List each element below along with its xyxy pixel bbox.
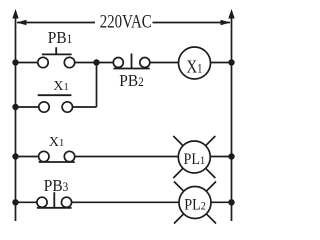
svg-text:PL1: PL1 bbox=[184, 151, 206, 168]
wire rung3 to PL2 bbox=[72, 201, 179, 203]
wire rung2 from left rail bbox=[16, 156, 39, 158]
svg-text:X1: X1 bbox=[53, 79, 68, 94]
svg-text:PB1: PB1 bbox=[48, 28, 73, 47]
node right rail rung1 bbox=[228, 59, 234, 65]
wire branch from left rail bbox=[16, 106, 39, 108]
node left rail rung2 bbox=[12, 153, 18, 159]
220VAC dimension line left segment bbox=[17, 22, 95, 24]
wire PB2 to coil X1 bbox=[150, 62, 179, 64]
pilot light PL2 bbox=[174, 182, 216, 224]
node left rail branch bbox=[12, 104, 18, 110]
svg-text:PB2: PB2 bbox=[119, 71, 144, 90]
220VAC right arrowhead bbox=[221, 20, 231, 26]
wire rung2 to PL1 bbox=[75, 156, 179, 158]
wire rung3 from left rail bbox=[16, 201, 37, 203]
right power rail L2 bbox=[231, 17, 233, 222]
node right rail rung3 bbox=[228, 199, 234, 205]
contact X1 (NO, seal-in branch) bbox=[38, 95, 73, 112]
left power rail L1 bbox=[15, 17, 17, 222]
wire branch riser bbox=[96, 62, 98, 107]
relay coil X1 bbox=[179, 47, 211, 79]
wire coil X1 to right rail bbox=[211, 62, 232, 64]
left rail arrowhead bbox=[12, 9, 18, 19]
wire rung1 PB1 to PB2 bbox=[75, 62, 114, 64]
wire PL1 to right rail bbox=[210, 156, 231, 158]
wire PL2 to right rail bbox=[211, 201, 232, 203]
220VAC dimension line right segment bbox=[153, 22, 231, 24]
node right rail rung2 bbox=[228, 153, 234, 159]
pushbutton PB2 (NC) bbox=[113, 54, 150, 69]
svg-text:PL2: PL2 bbox=[184, 196, 206, 213]
220VAC left arrowhead bbox=[17, 20, 27, 26]
right rail arrowhead bbox=[228, 9, 234, 19]
svg-text:PB3: PB3 bbox=[44, 176, 69, 195]
wire branch to riser bbox=[73, 106, 97, 108]
wire rung1 from left rail to PB1 bbox=[16, 62, 38, 64]
node left rail rung3 bbox=[12, 199, 18, 205]
pilot light PL1 bbox=[173, 136, 215, 178]
pushbutton PB3 (NC) bbox=[37, 192, 72, 208]
svg-text:220VAC: 220VAC bbox=[100, 11, 152, 32]
svg-text:X1: X1 bbox=[187, 57, 203, 77]
node left rail rung1 bbox=[12, 59, 18, 65]
node junction rung1 branch bbox=[93, 59, 99, 65]
svg-text:X1: X1 bbox=[49, 135, 64, 150]
contact X1 (NO, rung2) bbox=[39, 151, 75, 162]
pushbutton PB1 (NO) bbox=[38, 47, 75, 67]
